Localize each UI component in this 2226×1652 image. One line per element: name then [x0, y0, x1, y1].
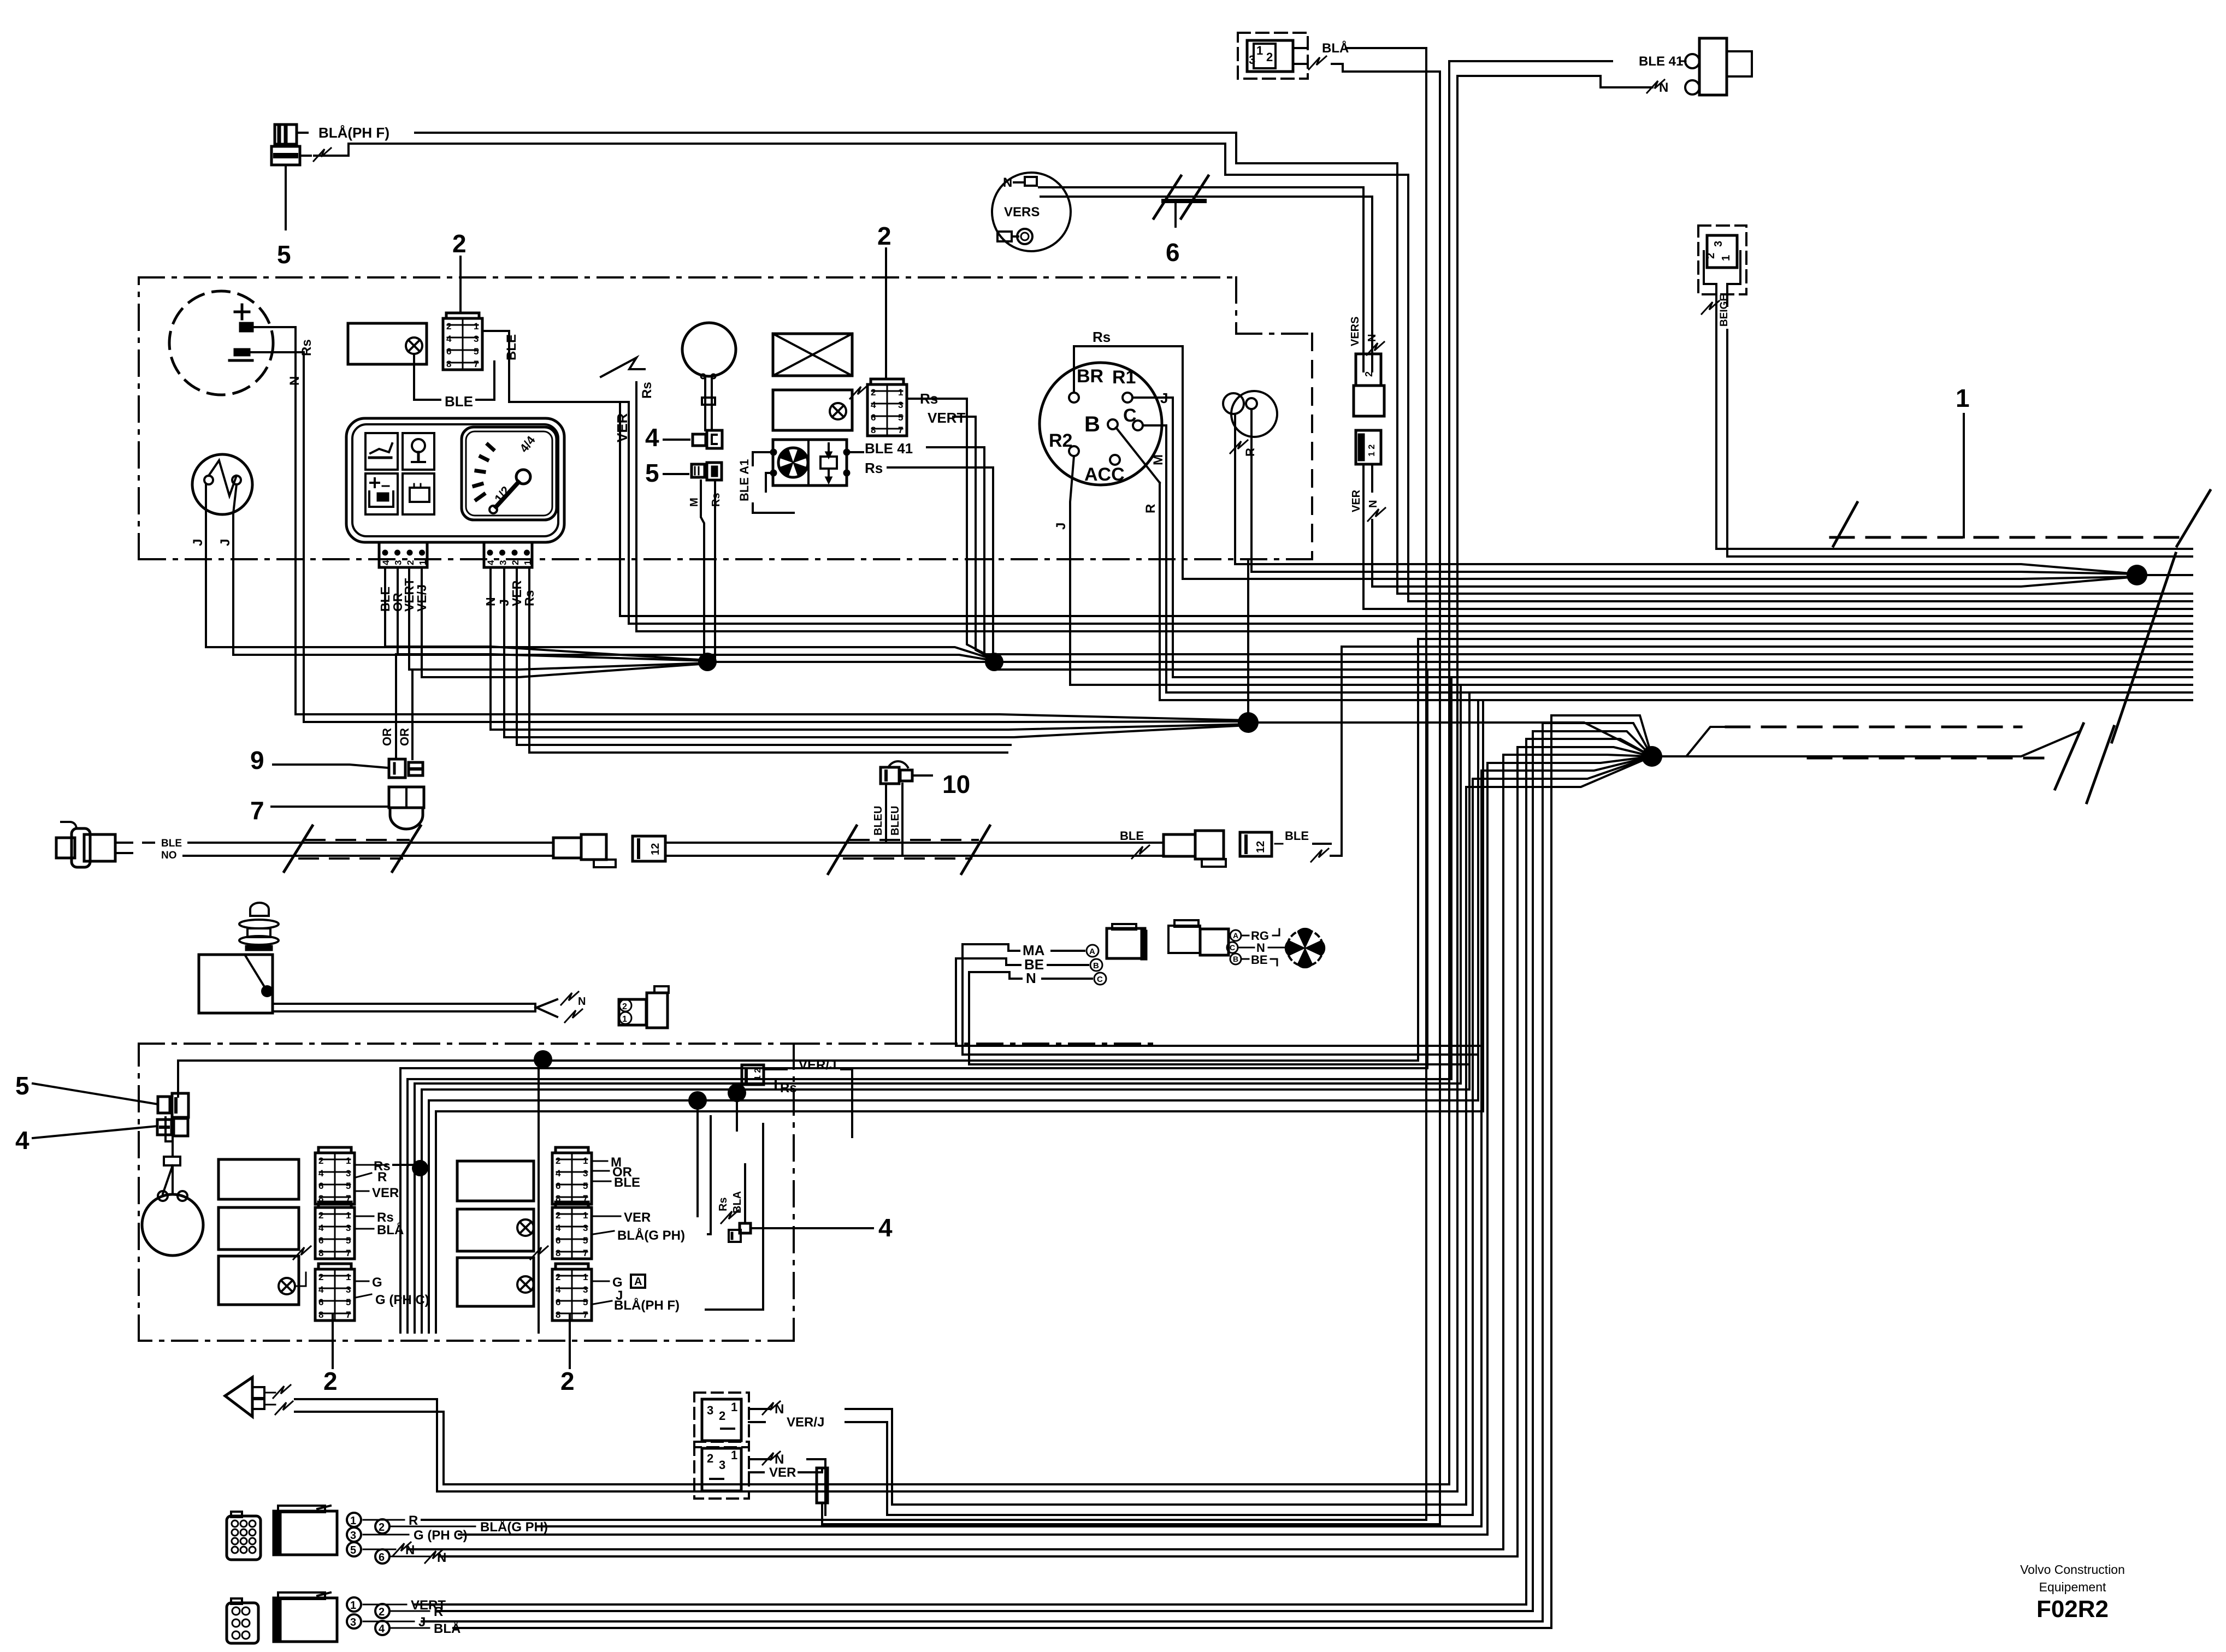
svg-text:2: 2 [318, 1210, 323, 1221]
svg-text:BLÅ(PH F): BLÅ(PH F) [318, 125, 389, 141]
svg-text:6: 6 [1166, 238, 1180, 267]
svg-text:3: 3 [393, 560, 404, 565]
svg-text:VE/J: VE/J [415, 584, 429, 612]
svg-text:6: 6 [318, 1297, 323, 1307]
svg-text:6: 6 [556, 1235, 560, 1246]
svg-text:BLÅ: BLÅ [434, 1621, 460, 1636]
svg-text:3: 3 [1249, 53, 1255, 67]
svg-text:BLE: BLE [1285, 829, 1309, 843]
svg-text:Rs: Rs [717, 1197, 729, 1211]
svg-text:6: 6 [556, 1181, 560, 1191]
svg-text:G: G [372, 1275, 382, 1290]
svg-text:2: 2 [719, 1409, 725, 1423]
svg-text:1: 1 [350, 1600, 356, 1612]
svg-text:1: 1 [1956, 384, 1970, 412]
svg-text:N: N [1003, 175, 1012, 190]
svg-text:4: 4 [446, 334, 452, 344]
svg-text:5: 5 [346, 1181, 351, 1191]
svg-text:12: 12 [1255, 841, 1267, 853]
svg-text:VERS: VERS [1349, 317, 1361, 346]
svg-text:4: 4 [556, 1168, 561, 1179]
svg-text:5: 5 [474, 346, 479, 357]
svg-text:6: 6 [446, 346, 451, 357]
svg-text:M: M [688, 498, 700, 507]
svg-text:3: 3 [707, 1404, 713, 1417]
svg-text:3: 3 [583, 1168, 588, 1179]
svg-text:4: 4 [15, 1126, 29, 1154]
svg-text:1: 1 [622, 1015, 627, 1024]
svg-text:BLÅ(PH F): BLÅ(PH F) [614, 1298, 680, 1313]
svg-text:5: 5 [350, 1544, 356, 1556]
svg-text:3: 3 [1713, 241, 1725, 247]
svg-text:2: 2 [446, 321, 451, 331]
svg-text:8: 8 [556, 1248, 560, 1258]
svg-text:1: 1 [418, 560, 428, 565]
svg-text:1: 1 [583, 1156, 588, 1166]
svg-text:7: 7 [474, 359, 479, 369]
svg-text:6: 6 [379, 1552, 385, 1564]
svg-text:C: C [1123, 405, 1137, 426]
svg-text:G: G [612, 1275, 623, 1290]
svg-text:4: 4 [878, 1213, 893, 1242]
svg-text:5: 5 [645, 459, 659, 487]
svg-text:2: 2 [318, 1272, 323, 1282]
svg-text:4: 4 [318, 1284, 324, 1295]
svg-text:BLE: BLE [161, 838, 182, 849]
svg-text:N: N [578, 996, 586, 1008]
svg-text:A: A [1089, 947, 1095, 956]
svg-text:3: 3 [498, 560, 509, 565]
svg-text:1: 1 [523, 560, 533, 565]
svg-text:VER: VER [769, 1465, 796, 1480]
svg-text:6: 6 [556, 1297, 560, 1307]
svg-text:12: 12 [650, 843, 662, 855]
svg-text:4: 4 [379, 1623, 385, 1635]
svg-text:7: 7 [346, 1248, 351, 1258]
svg-text:3: 3 [583, 1223, 588, 1233]
svg-text:OR: OR [380, 728, 394, 746]
svg-text:VER: VER [624, 1210, 651, 1225]
svg-text:BLE 41: BLE 41 [1639, 54, 1683, 69]
svg-text:BLE: BLE [504, 334, 519, 360]
svg-text:1: 1 [731, 1448, 737, 1462]
svg-text:8: 8 [556, 1310, 560, 1320]
svg-text:BLE: BLE [614, 1175, 640, 1190]
svg-text:N: N [1026, 970, 1036, 986]
svg-text:BLEU: BLEU [889, 806, 901, 836]
svg-text:R2: R2 [1049, 430, 1072, 451]
svg-text:1: 1 [350, 1515, 356, 1527]
svg-text:2: 2 [871, 387, 876, 398]
svg-text:OR: OR [398, 728, 411, 746]
svg-text:1: 1 [346, 1210, 351, 1221]
svg-text:VERS: VERS [1004, 205, 1040, 220]
svg-text:6: 6 [871, 412, 876, 423]
svg-text:5: 5 [277, 240, 291, 269]
svg-text:J: J [218, 539, 233, 546]
svg-text:1: 1 [1720, 255, 1732, 261]
svg-text:R: R [434, 1604, 443, 1619]
svg-text:2: 2 [452, 229, 467, 258]
svg-text:1: 1 [583, 1272, 588, 1282]
svg-text:3: 3 [346, 1168, 351, 1179]
svg-text:5: 5 [898, 412, 903, 423]
svg-text:BLE: BLE [1120, 829, 1144, 843]
svg-text:M: M [1151, 454, 1166, 465]
svg-text:2: 2 [556, 1156, 560, 1166]
svg-text:3: 3 [350, 1617, 356, 1629]
svg-text:4: 4 [645, 423, 659, 452]
svg-text:4: 4 [381, 560, 391, 565]
svg-text:BR: BR [1077, 366, 1103, 387]
svg-text:N: N [1367, 500, 1379, 508]
svg-text:3: 3 [719, 1458, 725, 1472]
svg-text:8: 8 [318, 1310, 323, 1320]
svg-text:N: N [287, 376, 302, 386]
svg-text:VER: VER [372, 1186, 399, 1200]
svg-text:BLE A1: BLE A1 [737, 459, 751, 501]
svg-text:Rs: Rs [710, 493, 722, 507]
svg-text:10: 10 [942, 770, 970, 798]
svg-text:Equipement: Equipement [2039, 1580, 2106, 1594]
svg-text:4: 4 [318, 1223, 324, 1233]
svg-text:9: 9 [250, 746, 264, 774]
svg-text:2: 2 [622, 1002, 627, 1011]
svg-text:BE: BE [1251, 953, 1268, 967]
svg-text:Rs: Rs [640, 382, 654, 399]
svg-text:7: 7 [898, 425, 903, 435]
svg-text:NO: NO [161, 850, 177, 861]
svg-text:Volvo Construction: Volvo Construction [2020, 1562, 2125, 1577]
svg-text:Rs: Rs [299, 339, 314, 356]
svg-text:1: 1 [731, 1400, 737, 1414]
svg-text:B: B [1233, 955, 1238, 963]
svg-text:G (PH C): G (PH C) [414, 1528, 468, 1543]
svg-text:4: 4 [871, 400, 876, 410]
svg-text:2: 2 [556, 1210, 560, 1221]
svg-text:3: 3 [350, 1530, 356, 1542]
svg-text:2: 2 [707, 1452, 713, 1465]
svg-text:2: 2 [379, 1606, 385, 1618]
svg-text:A: A [634, 1276, 642, 1288]
svg-text:5: 5 [583, 1181, 588, 1191]
svg-text:BLÅ: BLÅ [1322, 40, 1349, 56]
svg-text:3: 3 [898, 400, 903, 410]
svg-text:5: 5 [583, 1235, 588, 1246]
svg-text:C: C [1097, 975, 1103, 984]
svg-text:5: 5 [583, 1297, 588, 1307]
svg-text:BLÅ(G PH): BLÅ(G PH) [480, 1519, 548, 1535]
svg-text:3: 3 [474, 334, 479, 344]
svg-text:J: J [1160, 390, 1168, 406]
svg-text:8: 8 [446, 359, 451, 369]
svg-text:2: 2 [405, 560, 416, 565]
svg-text:BLÅ(G PH): BLÅ(G PH) [617, 1228, 685, 1243]
svg-text:B: B [1093, 961, 1099, 970]
svg-text:R: R [1143, 504, 1158, 513]
svg-text:VER/J: VER/J [787, 1415, 824, 1430]
svg-text:7: 7 [583, 1310, 588, 1320]
svg-text:4/4: 4/4 [517, 433, 538, 455]
svg-text:2: 2 [510, 560, 521, 565]
svg-text:7: 7 [250, 796, 264, 825]
svg-text:7: 7 [346, 1310, 351, 1320]
svg-text:3: 3 [346, 1223, 351, 1233]
svg-text:2: 2 [560, 1367, 575, 1395]
svg-text:1: 1 [346, 1272, 351, 1282]
svg-text:VER: VER [614, 413, 630, 442]
svg-text:VER: VER [1350, 489, 1362, 512]
svg-text:A: A [1233, 931, 1238, 940]
svg-text:BLE 41: BLE 41 [865, 440, 913, 457]
svg-text:1: 1 [1256, 44, 1263, 57]
svg-text:4: 4 [556, 1284, 561, 1295]
svg-text:2: 2 [877, 222, 891, 250]
svg-text:1: 1 [346, 1156, 351, 1166]
svg-text:1: 1 [583, 1210, 588, 1221]
svg-text:R: R [377, 1170, 387, 1185]
svg-text:2: 2 [323, 1367, 338, 1395]
svg-text:J: J [191, 539, 205, 546]
svg-text:5: 5 [346, 1235, 351, 1246]
svg-text:5: 5 [346, 1297, 351, 1307]
svg-text:B: B [1084, 412, 1100, 436]
svg-text:8: 8 [871, 425, 876, 435]
svg-text:1 2: 1 2 [1367, 445, 1377, 457]
svg-text:2: 2 [1363, 371, 1374, 377]
svg-text:6: 6 [318, 1235, 323, 1246]
svg-text:ACC: ACC [1084, 464, 1125, 485]
svg-text:BLE: BLE [445, 393, 473, 410]
svg-text:Rs: Rs [1093, 329, 1111, 345]
svg-text:N: N [1366, 334, 1378, 342]
svg-text:3: 3 [583, 1284, 588, 1295]
svg-text:1: 1 [898, 387, 903, 398]
svg-text:3: 3 [346, 1284, 351, 1295]
svg-text:BLEU: BLEU [872, 806, 884, 836]
svg-text:C: C [1230, 943, 1235, 952]
svg-text:2: 2 [556, 1272, 560, 1282]
svg-text:R1: R1 [1112, 367, 1136, 388]
svg-text:Rs: Rs [865, 460, 883, 476]
svg-text:5: 5 [15, 1071, 29, 1100]
svg-text:2: 2 [1266, 50, 1273, 64]
svg-text:4: 4 [318, 1168, 324, 1179]
svg-text:F02R2: F02R2 [2036, 1596, 2109, 1623]
svg-text:4: 4 [486, 560, 496, 565]
svg-text:1: 1 [474, 321, 479, 331]
svg-text:2: 2 [1705, 253, 1717, 259]
svg-text:4: 4 [556, 1223, 561, 1233]
svg-text:R: R [1243, 448, 1257, 457]
svg-text:2: 2 [379, 1521, 385, 1533]
svg-text:J: J [1054, 523, 1068, 530]
svg-text:2: 2 [318, 1156, 323, 1166]
svg-text:8: 8 [318, 1248, 323, 1258]
svg-text:7: 7 [583, 1248, 588, 1258]
svg-text:6: 6 [318, 1181, 323, 1191]
